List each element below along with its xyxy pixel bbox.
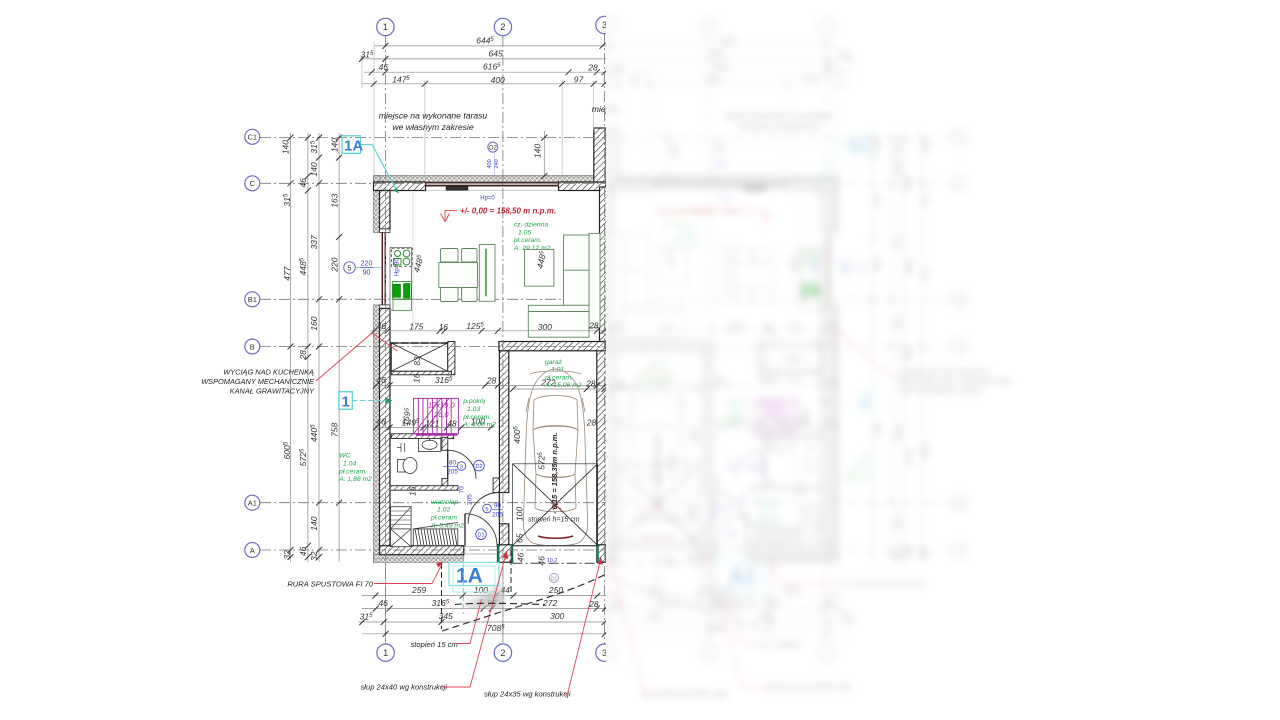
garage car: [523, 369, 587, 546]
svg-text:205: 205: [447, 468, 458, 475]
window 220/90 label: [361, 260, 373, 276]
column slup 24x35: [597, 545, 606, 563]
kitchen stove green: [393, 284, 410, 299]
garage door dash line: [513, 562, 597, 564]
svg-text:70: 70: [459, 486, 466, 494]
window symbol circle 5: [344, 262, 356, 274]
svg-text:A: 4,00 m2: A: 4,00 m2: [462, 422, 496, 429]
svg-text:5: 5: [348, 265, 352, 272]
wall: garage left upper: [499, 351, 508, 493]
grid circle 3 top: [596, 16, 613, 33]
svg-text:słup 24x40 wg konstrukcji: słup 24x40 wg konstrukcji: [361, 683, 448, 692]
svg-text:46: 46: [376, 417, 386, 427]
wall: bottom (wiatrolap): [380, 546, 464, 555]
wall below stairs: [391, 434, 454, 439]
svg-text:46: 46: [379, 62, 389, 72]
svg-text:Hp=0: Hp=0: [480, 195, 495, 201]
svg-text:337: 337: [309, 235, 319, 249]
svg-text:B1: B1: [248, 295, 257, 304]
svg-text:3: 3: [460, 464, 463, 470]
svg-text:48: 48: [447, 418, 457, 428]
svg-text:2: 2: [500, 648, 505, 658]
svg-text:46: 46: [376, 375, 386, 385]
svg-text:1: 1: [342, 394, 350, 411]
grid circle A1: [245, 495, 260, 510]
vertical axis 3 (party wall): [604, 34, 606, 644]
insulation speckle band bottom wall: [374, 555, 464, 563]
insulation speckle band top wall: [374, 176, 606, 183]
svg-text:1.03: 1.03: [467, 406, 480, 413]
door 80/205 label: [457, 462, 466, 471]
svg-text:100: 100: [515, 507, 525, 521]
stairs magenta: [414, 398, 459, 433]
kitchen counter: [390, 248, 412, 311]
svg-text:163: 163: [329, 193, 339, 207]
svg-text:1.05: 1.05: [518, 229, 531, 236]
svg-text:- 0,15 = 158,35m n.p.m.: - 0,15 = 158,35m n.p.m.: [550, 432, 559, 514]
top dimension ticks: [359, 43, 608, 87]
insulation speckle band left wall: [374, 176, 381, 233]
rura red leader: [374, 566, 441, 584]
tv cabinet: [479, 245, 495, 302]
WYCIAG annotation: [201, 368, 315, 396]
kitchen fridge: [393, 300, 412, 311]
vertical axis 2: [502, 36, 504, 644]
svg-text:O2: O2: [489, 146, 498, 152]
svg-text:140: 140: [329, 138, 339, 152]
horizontal axis C: [260, 182, 606, 184]
faded mirrored right unit: [512, 16, 1011, 698]
top dimension lines: [360, 42, 606, 176]
svg-text:A1: A1: [248, 499, 257, 508]
WC bottom wall: [390, 486, 458, 491]
bottom extension dashed lines: [442, 550, 512, 629]
top extension lines: [373, 42, 375, 176]
svg-text:wiatrołap: wiatrołap: [431, 499, 458, 506]
svg-text:A: 1,88 m2: A: 1,88 m2: [338, 476, 372, 483]
svg-text:+/- 0,00 = 158,50 m n.p.m.: +/- 0,00 = 158,50 m n.p.m.: [460, 206, 556, 215]
horizontal axis B1: [260, 298, 606, 300]
horizontal axis A: [260, 549, 606, 551]
svg-text:pł.ceram.: pł.ceram.: [462, 414, 491, 421]
roller blind box under window: [446, 187, 468, 191]
garage inner dim line: [512, 388, 606, 390]
wiatrolap radiator bench: [413, 523, 458, 546]
svg-text:345: 345: [439, 611, 453, 621]
window sill lines left: [380, 229, 391, 233]
svg-text:WSPOMAGANY MECHANICZNIE: WSPOMAGANY MECHANICZNIE: [201, 377, 314, 386]
O2 circle and 400/240 blue: [488, 142, 498, 152]
stairs dim labels: [400, 407, 485, 429]
svg-text:p.pokój: p.pokój: [462, 398, 485, 405]
svg-text:garaż: garaż: [545, 359, 563, 366]
svg-text:17x19,0: 17x19,0: [428, 401, 456, 410]
svg-text:121: 121: [425, 418, 439, 428]
svg-text:80: 80: [449, 460, 457, 467]
break wavy dashed lines: [442, 571, 612, 631]
svg-text:28: 28: [588, 321, 599, 331]
svg-text:pł.ceram.: pł.ceram.: [338, 468, 367, 475]
top dimension labels: [360, 35, 597, 85]
wiatrolap green label: [430, 499, 464, 529]
WC toilet: [397, 443, 417, 474]
svg-text:słup 24x35 wg konstrukcji: słup 24x35 wg konstrukcji: [484, 690, 571, 699]
svg-text:46: 46: [377, 321, 387, 331]
WC door arc: [448, 450, 476, 478]
svg-text:2: 2: [500, 22, 505, 32]
grid circle A: [245, 543, 260, 558]
svg-text:46: 46: [298, 178, 308, 188]
svg-text:stopień 15 cm: stopień 15 cm: [411, 640, 458, 649]
svg-text:300: 300: [550, 611, 564, 621]
left chain labels (rotated): [281, 138, 340, 561]
grid circle 2 top: [494, 18, 511, 35]
svg-text:Hp=90: Hp=90: [395, 257, 401, 276]
wiatrolap X box: [391, 529, 412, 547]
svg-text:pł.ceram.: pł.ceram.: [513, 237, 542, 244]
svg-text:WC: WC: [339, 453, 350, 460]
svg-text:1: 1: [383, 22, 388, 32]
wall: top right section: [559, 182, 607, 191]
bottom dimension labels: [360, 585, 599, 633]
svg-text:stopień h=15 cm: stopień h=15 cm: [528, 517, 580, 524]
svg-text:miejsce na wykonane tarasu: miejsce na wykonane tarasu: [379, 111, 488, 121]
svg-text:46: 46: [516, 552, 526, 562]
corridor dim line 316: [374, 384, 606, 386]
section 1A marker bottom: [449, 563, 499, 586]
door circle D1: [476, 529, 487, 540]
grid circle C: [245, 176, 260, 191]
bottom dimension ticks: [359, 593, 608, 637]
garage X cross: [513, 464, 598, 546]
svg-text:cz. dzienna: cz. dzienna: [514, 222, 549, 229]
svg-text:pł.ceram: pł.ceram: [430, 515, 457, 522]
svg-text:RURA SPUSTOWA FI 70: RURA SPUSTOWA FI 70: [287, 580, 373, 589]
svg-text:90: 90: [363, 269, 371, 276]
svg-text:28: 28: [587, 63, 598, 73]
bottom dimension lines: [358, 562, 606, 644]
living room bottom dim line: [370, 330, 606, 332]
svg-text:1: 1: [383, 648, 388, 658]
wall: top left section: [374, 182, 426, 191]
horizontal axis C1: [260, 137, 606, 139]
left dimension chains: [291, 133, 340, 562]
svg-text:272: 272: [540, 377, 555, 387]
svg-text:10,2: 10,2: [547, 558, 558, 564]
coffee table: [525, 249, 554, 286]
svg-text:5: 5: [485, 507, 488, 513]
horizontal axis A1: [260, 502, 606, 504]
p.pokoj green label: [462, 398, 496, 428]
svg-text:140: 140: [309, 516, 319, 530]
door wiatrolap entrance arc: [465, 514, 497, 546]
svg-text:477: 477: [282, 266, 292, 280]
blue 70/205 rotated at hall: [459, 486, 474, 505]
svg-text:KANAŁ GRAWITACYJNY: KANAŁ GRAWITACYJNY: [230, 387, 315, 396]
G1 circle bottom: [550, 574, 559, 583]
shaft right wall: [448, 342, 455, 375]
door 90/205 label hall: [483, 504, 492, 513]
svg-text:645: 645: [489, 48, 503, 58]
wiatrolap zigzag cabinet: [391, 507, 412, 529]
gray triangle artifact: [460, 585, 503, 608]
svg-text:90: 90: [494, 503, 502, 510]
svg-text:65: 65: [515, 533, 525, 543]
svg-text:46: 46: [378, 598, 388, 608]
svg-text:400: 400: [487, 159, 493, 168]
cz. dzienna green label: [513, 222, 551, 252]
svg-text:140: 140: [309, 162, 319, 176]
svg-text:16: 16: [439, 322, 449, 332]
WC right wall: [442, 437, 448, 450]
svg-text:1A: 1A: [456, 565, 483, 588]
svg-text:D1: D1: [477, 533, 484, 539]
grid circle B1: [245, 292, 260, 307]
section 1A marker top: [342, 136, 361, 154]
svg-text:46: 46: [298, 546, 308, 556]
svg-text:C1: C1: [248, 133, 258, 142]
svg-text:28: 28: [298, 350, 308, 361]
garage dims: [512, 377, 596, 565]
dining table: [439, 249, 478, 302]
wall: garage left lower: [499, 524, 508, 547]
grid circle 1 bottom: [377, 644, 394, 661]
svg-text:205: 205: [492, 511, 503, 518]
grid circle 2 bottom: [494, 644, 511, 661]
svg-text:we własnym zakresie: we własnym zakresie: [392, 122, 473, 132]
svg-text:758: 758: [329, 423, 339, 437]
svg-text:220: 220: [329, 257, 339, 272]
svg-text:259: 259: [411, 585, 426, 595]
shaft bottom wall: [391, 371, 451, 375]
svg-text:A: A: [250, 546, 255, 555]
wall: left lower (below window): [380, 308, 391, 547]
svg-text:46: 46: [536, 556, 546, 566]
svg-text:28: 28: [586, 418, 597, 428]
window O5 left wall: [382, 233, 385, 305]
svg-text:28: 28: [486, 375, 497, 385]
svg-text:140: 140: [533, 144, 543, 158]
WC washbasin: [418, 439, 440, 452]
svg-text:1.04: 1.04: [343, 461, 356, 468]
hall/wiatrolap wall column: [493, 478, 499, 493]
svg-text:220: 220: [361, 260, 373, 267]
svg-text:32: 32: [309, 551, 319, 561]
window O1 top wall: [426, 183, 559, 186]
svg-text:400: 400: [491, 75, 505, 85]
section 1 marker: [339, 392, 353, 410]
grid circle 1 top: [245, 16, 613, 661]
svg-text:1.02: 1.02: [437, 507, 450, 514]
couch: [528, 233, 600, 337]
wall: terrace party wall stub: [594, 128, 606, 182]
svg-text:140: 140: [281, 140, 291, 154]
svg-text:WYCIĄG NAD KUCHENKĄ: WYCIĄG NAD KUCHENKĄ: [223, 368, 314, 377]
svg-text:32: 32: [282, 550, 292, 560]
grid circle 3 bottom: [596, 644, 613, 661]
svg-text:250: 250: [548, 585, 563, 595]
svg-text:G1: G1: [551, 576, 558, 582]
horizontal axis B: [260, 346, 606, 348]
svg-text:205: 205: [467, 494, 474, 505]
grid circle C1: [245, 129, 260, 144]
svg-text:272: 272: [542, 598, 557, 608]
wall: party wall living room: [600, 187, 607, 343]
WC green label: [338, 453, 372, 483]
svg-text:175: 175: [409, 322, 423, 332]
text: miejsce na wykonane tarasu: [379, 104, 701, 132]
door circle D2: [474, 460, 485, 471]
svg-text:240: 240: [494, 159, 500, 168]
hall bottom wall piece: [260, 34, 606, 644]
svg-text:C: C: [250, 179, 256, 188]
kitchen sink unit: [392, 248, 413, 266]
svg-text:1A: 1A: [344, 138, 363, 155]
column slup 24x40: [498, 545, 513, 563]
svg-text:160: 160: [309, 316, 319, 330]
WYCIAG red leader: [316, 333, 398, 381]
shaft box with X: [391, 343, 448, 371]
svg-text:28: 28: [585, 378, 596, 388]
door hall-garage arc: [468, 493, 499, 524]
garaz green label: [544, 359, 582, 389]
red level annotation: [441, 211, 458, 222]
svg-text:B: B: [250, 342, 255, 351]
wall: left upper (above window): [380, 191, 391, 230]
svg-text:16: 16: [408, 486, 418, 496]
svg-text:D2: D2: [475, 464, 482, 470]
svg-text:97: 97: [574, 74, 584, 84]
left chain ticks: [288, 135, 343, 560]
wall: party wall garage: [597, 343, 607, 546]
svg-text:16: 16: [412, 373, 422, 383]
svg-text:300: 300: [538, 322, 552, 332]
svg-text:83: 83: [413, 356, 422, 365]
grid circle B: [245, 339, 260, 354]
wall: garage top: [499, 342, 606, 351]
